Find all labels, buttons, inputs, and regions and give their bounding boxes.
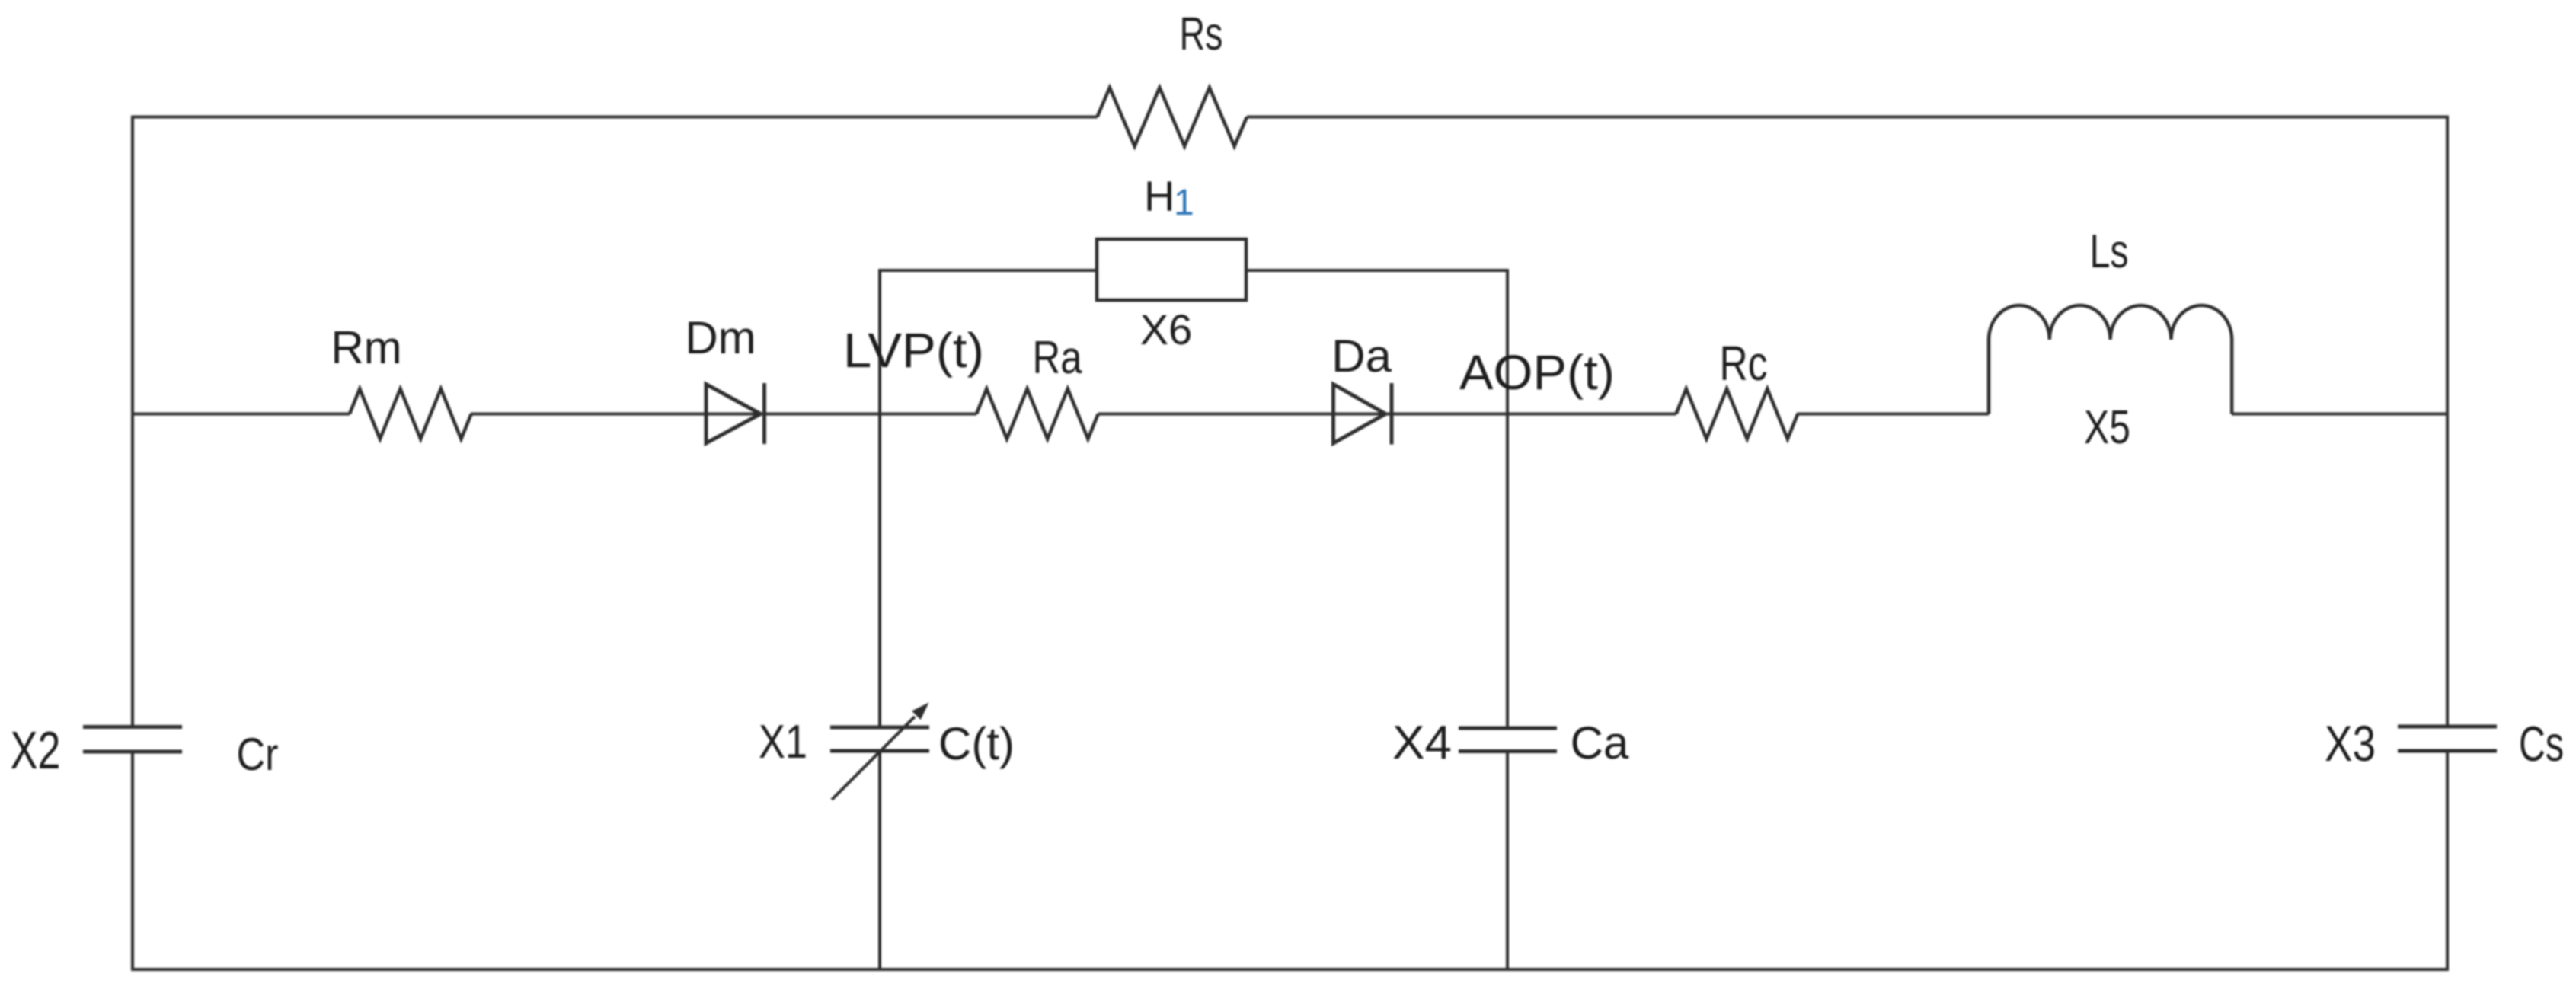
wire Ls to right border [2232,413,2447,416]
svg-text:AOP(t): AOP(t) [1459,345,1615,400]
svg-text:Ca: Ca [1571,717,1629,768]
svg-text:Rs: Rs [1180,8,1223,59]
capacitor Cr plates [83,725,182,729]
resistor Rm [350,389,471,439]
resistor Ra [976,389,1098,439]
svg-text:1: 1 [1174,183,1194,223]
resistor Rc [1676,389,1798,439]
svg-text:Rm: Rm [331,322,401,373]
capacitor Ca plates [1459,727,1557,730]
svg-text:H: H [1144,172,1175,220]
diode Da triangle [1334,385,1386,444]
svg-text:C(t): C(t) [938,718,1015,769]
svg-text:LVP(t): LVP(t) [843,323,984,378]
wire top-left to Rs [133,116,1098,119]
svg-text:Cr: Cr [237,729,279,780]
capacitor Cs plates [2398,725,2497,729]
wire Rc to Ls [1797,413,1989,416]
wire Ra to Rc through Da [1098,413,1676,416]
wire bottom [131,968,2449,971]
svg-text:X5: X5 [2084,401,2130,454]
capacitor C(t) X1 plates [830,726,929,730]
wire right border upper [2446,116,2449,726]
svg-text:Da: Da [1331,331,1392,382]
wire main left [133,413,350,416]
wire H1 branch right [1247,269,1507,272]
svg-text:Ra: Ra [1033,332,1083,383]
svg-text:Rc: Rc [1720,336,1768,391]
wire Rm to Ra through Dm [471,413,976,416]
diode Da cathode bar [1390,383,1394,445]
component box H1 X6 [1097,239,1246,300]
svg-text:Cs: Cs [2519,716,2564,771]
wire left border lower [131,754,134,970]
svg-text:X1: X1 [759,716,807,768]
resistor Rs [1098,88,1248,146]
wire AOP vertical upper [1506,269,1509,727]
inductor Ls X5 [1989,305,2232,414]
variable capacitor arrow [832,717,915,800]
svg-text:Ls: Ls [2090,225,2129,278]
wire AOP vertical lower [1506,752,1509,969]
diode Dm triangle [706,385,761,444]
wire left border upper [131,116,134,726]
svg-text:Dm: Dm [685,312,756,363]
diode Dm cathode bar [762,383,766,444]
svg-text:X3: X3 [2325,715,2376,771]
wire LVP vertical lower [878,752,881,969]
svg-text:X2: X2 [11,720,61,780]
svg-text:X4: X4 [1392,717,1452,769]
svg-text:X6: X6 [1140,305,1193,353]
wire LVP vertical upper [878,269,881,726]
wire right border lower [2446,753,2449,970]
wire Rs to top-right corner [1247,116,2447,119]
wire H1 branch left [880,269,1096,272]
